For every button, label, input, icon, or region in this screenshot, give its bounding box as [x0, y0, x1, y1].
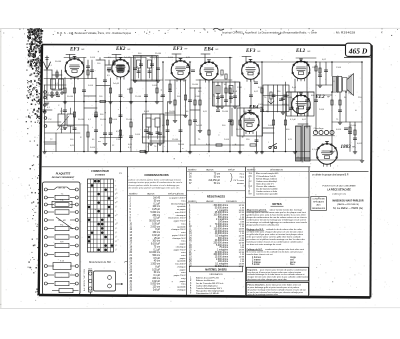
svg-text:PLAQUETTE: PLAQUETTE — [56, 173, 71, 176]
svg-text:A L I M E N T A T I O N: A L I M E N T A T I O N — [83, 268, 86, 291]
wire junction dots — [64, 57, 363, 153]
svg-text:de volume prise parleur sont b: de volume prise parleur sont bobinage en… — [129, 187, 180, 190]
svg-text:50 cm: 50 cm — [214, 183, 220, 185]
svg-text:VALEUR: VALEUR — [206, 168, 214, 171]
svg-text:papier 750 V: papier 750 V — [174, 248, 186, 251]
svg-text:25 µF: 25 µF — [154, 238, 161, 240]
svg-text:50.000: 50.000 — [55, 61, 62, 63]
svg-text:2.000 cm: 2.000 cm — [151, 226, 161, 228]
screen box around V8 — [237, 85, 289, 136]
svg-text:15.000: 15.000 — [172, 139, 179, 141]
tube V2 EK2 — [111, 47, 131, 79]
table column rules — [128, 167, 369, 295]
svg-text:60 cm: 60 cm — [154, 272, 160, 274]
power transformer T4 — [296, 124, 311, 162]
svg-text:50.000: 50.000 — [100, 119, 107, 121]
svg-text:0,1 µF: 0,1 µF — [153, 203, 160, 205]
page border frame — [39, 45, 372, 298]
svg-text:Jeu de 2 transfos MF 472 kc/s: Jeu de 2 transfos MF 472 kc/s — [196, 282, 223, 285]
svg-text:25.000: 25.000 — [236, 129, 243, 131]
IF transformer T1 — [134, 56, 157, 81]
misc numbered parts table — [246, 167, 309, 197]
svg-text:5.000: 5.000 — [112, 119, 118, 121]
speaker connection diagram (branchement du HP) — [88, 261, 128, 296]
svg-text:ajustable: ajustable — [177, 260, 186, 263]
svg-text:ajustable: ajustable — [177, 286, 186, 289]
svg-text:SPÉCIFICATIONS: SPÉCIFICATIONS — [168, 192, 184, 195]
svg-text:papier: papier — [180, 268, 186, 271]
screen grid rail — [94, 58, 257, 135]
svg-text:0,02 µF: 0,02 µF — [152, 235, 160, 237]
svg-text:10.000 cm: 10.000 cm — [149, 252, 160, 254]
svg-text:céramique: céramique — [176, 214, 187, 217]
svg-text:Imprimé CHAREL, Argenteuil: Imprimé CHAREL, Argenteuil — [222, 31, 257, 35]
svg-text:avec du la montage tension rel: avec du la montage tension relier — [248, 293, 279, 296]
svg-text:5 écran: 5 écran — [252, 263, 260, 266]
svg-text:EB4: EB4 — [203, 47, 214, 52]
svg-text:50 cm: 50 cm — [214, 177, 220, 179]
svg-text:électrochimique: électrochimique — [171, 202, 186, 205]
svg-text:0,1 µF: 0,1 µF — [312, 149, 318, 151]
component value labels — [49, 53, 363, 151]
svg-text:10.000: 10.000 — [192, 84, 199, 86]
svg-text:120 cm: 120 cm — [152, 287, 160, 289]
svg-text:trimmer: trimmer — [237, 182, 244, 185]
capacitors list (condensateurs) — [128, 173, 186, 291]
svg-text:mica 500 V: mica 500 V — [175, 264, 186, 266]
supplier column — [311, 174, 364, 211]
output transformer T3 — [333, 76, 342, 93]
svg-text:chimique 550 V: chimique 550 V — [171, 229, 186, 231]
svg-text:0,5 µF: 0,5 µF — [153, 258, 160, 260]
svg-text:250 cm: 250 cm — [152, 215, 160, 217]
svg-text:5.000: 5.000 — [88, 85, 94, 87]
svg-text:2x8 µF: 2x8 µF — [153, 289, 161, 291]
svg-text:CV 2 cases: CV 2 cases — [233, 180, 244, 182]
svg-text:1.000: 1.000 — [135, 134, 141, 136]
svg-text:0,1 µF: 0,1 µF — [153, 249, 160, 251]
svg-text:NUMÉRO: NUMÉRO — [247, 168, 256, 171]
svg-text:0,05 µF: 0,05 µF — [152, 223, 160, 225]
tube V7 EL2 — [291, 93, 330, 116]
svg-text:5.000 cm: 5.000 cm — [151, 212, 161, 214]
svg-text:Potentiomètre 0,5 MΩ A.I.: Potentiomètre 0,5 MΩ A.I. — [196, 292, 220, 295]
svg-text:50.000 cm: 50.000 cm — [149, 221, 160, 223]
svg-text:montage tension pour parleur f: montage tension pour parleur fil condens… — [129, 181, 183, 184]
svg-text:Bloc accord complet 465: Bloc accord complet 465 — [256, 172, 279, 175]
svg-text:25.000: 25.000 — [155, 53, 162, 55]
model number box 465 D — [344, 43, 371, 57]
svg-text:465 D: 465 D — [348, 47, 368, 56]
svg-text:8 µF: 8 µF — [155, 229, 160, 231]
svg-text:1883: 1883 — [341, 145, 352, 150]
svg-text:75 cm: 75 cm — [214, 174, 220, 176]
svg-text:0,1 µF: 0,1 µF — [153, 275, 160, 277]
svg-text:VALEUR: VALEUR — [206, 200, 214, 203]
svg-text:ajustable: ajustable — [177, 225, 186, 228]
svg-text:chimique: chimique — [177, 266, 186, 268]
svg-text:transfo dans chassis est est: transfo dans chassis est est — [247, 253, 273, 256]
svg-text:50.000: 50.000 — [78, 119, 85, 121]
svg-text:s’adresser à la: s’adresser à la — [332, 193, 347, 195]
svg-text:1.500: 1.500 — [336, 67, 342, 69]
svg-text:au papier 1.500 V: au papier 1.500 V — [169, 197, 186, 200]
lower-left components — [44, 104, 133, 146]
misc equipment list (materiel divers) — [190, 266, 243, 295]
oscillator padder section — [45, 108, 89, 133]
svg-text:5.000: 5.000 — [90, 147, 96, 149]
notes paragraphs — [246, 202, 308, 296]
tube V4 EB4 — [200, 47, 219, 82]
svg-text:Cadran verre démultipl.: Cadran verre démultipl. — [256, 180, 278, 183]
ground symbols — [43, 102, 357, 154]
tube V3 EF3 — [171, 47, 190, 82]
svg-text:15.000: 15.000 — [350, 125, 357, 127]
svg-text:1.000: 1.000 — [152, 85, 158, 87]
svg-text:sur dans est entre montage de: sur dans est entre montage de circuit — [247, 243, 282, 246]
svg-text:T.A.: T.A. — [60, 198, 64, 201]
svg-text:Self de filtrage 2.000 Ω: Self de filtrage 2.000 Ω — [256, 177, 277, 180]
svg-text:DÉSIGNATION: DÉSIGNATION — [210, 273, 224, 276]
svg-text:1.000: 1.000 — [268, 125, 274, 127]
svg-text:parleur cet volume parleur bor: parleur cet volume parleur borne sont bo… — [129, 179, 182, 182]
svg-text:2x0,45: 2x0,45 — [196, 125, 203, 127]
wire mesh — [42, 56, 362, 167]
svg-text:Haut-parleur électrodynamique: Haut-parleur électrodynamique — [196, 290, 225, 293]
svg-text:EK2: EK2 — [115, 47, 126, 52]
IF transformer T2 — [213, 82, 240, 106]
svg-text:200 cm: 200 cm — [152, 278, 160, 280]
volume potentiometer P1 — [268, 92, 283, 104]
svg-text:10.000: 10.000 — [60, 129, 67, 131]
svg-text:NUMÉRO: NUMÉRO — [188, 168, 197, 171]
svg-text:des borne cet relier chaque po: des borne cet relier chaque pour sera tu… — [248, 278, 288, 281]
svg-text:Cordon secteur et fiche: Cordon secteur et fiche — [256, 190, 278, 193]
svg-text:0,25 µF: 0,25 µF — [152, 269, 160, 271]
svg-text:DE RACCORDEMENT: DE RACCORDEMENT — [52, 177, 75, 179]
svg-text:50 cm: 50 cm — [154, 200, 160, 202]
svg-text:NUMÉRO: NUMÉRO — [188, 200, 197, 203]
svg-text:50.000: 50.000 — [67, 96, 74, 98]
svg-text:papier: papier — [180, 243, 186, 246]
svg-text:20.000: 20.000 — [178, 144, 185, 146]
screen box around V7 — [287, 92, 315, 116]
wave switch table (commutateur d ondes) — [88, 171, 123, 252]
svg-text:0,25 µF: 0,25 µF — [152, 209, 160, 211]
svg-text:0,003 µF: 0,003 µF — [151, 244, 161, 246]
svg-text:20.000: 20.000 — [286, 97, 293, 99]
svg-text:SPÉCIALES: SPÉCIALES — [313, 201, 324, 204]
svg-text:DÉPANNEURS: DÉPANNEURS — [312, 207, 326, 210]
svg-text:DÉSIGNATION: DÉSIGNATION — [270, 168, 284, 171]
svg-text:chassis parleur valeur les ent: chassis parleur valeur les entre et sur … — [129, 184, 180, 187]
svg-text:0,02 µF: 0,02 µF — [152, 281, 160, 283]
svg-text:EF3: EF3 — [245, 49, 256, 54]
svg-text:0,1 µF: 0,1 µF — [290, 119, 296, 121]
svg-text:osc: osc — [98, 141, 101, 143]
svg-text:1 MΩ: 1 MΩ — [195, 96, 200, 98]
oscillator coil L1 — [143, 114, 165, 143]
extra capacitors — [86, 64, 351, 141]
svg-text:20.000: 20.000 — [222, 111, 229, 113]
svg-text:chimique: chimique — [177, 289, 186, 291]
lower-left labels — [47, 105, 141, 149]
svg-text:EF3: EF3 — [69, 47, 80, 52]
svg-text:D'ONDES: D'ONDES — [95, 174, 105, 176]
svg-text:Transfo d’alimentation 350 V: Transfo d’alimentation 350 V — [196, 287, 223, 290]
tube V9 1883 — [316, 142, 355, 167]
svg-text:POUR TOUT CE QUI CONCERNE: POUR TOUT CE QUI CONCERNE — [322, 185, 356, 187]
heater winding terminals (chauffage) — [313, 128, 335, 136]
svg-text:papier 750 V: papier 750 V — [174, 220, 186, 223]
svg-text:MAISON DU HAUT-PARLEUR: MAISON DU HAUT-PARLEUR — [332, 199, 363, 202]
svg-text:papier: papier — [180, 280, 186, 283]
svg-text:Bobines d’accord PO-GO: Bobines d’accord PO-GO — [196, 277, 220, 280]
svg-text:La Documentation du Responsabl: La Documentation du Responsable-Radio, —… — [258, 30, 318, 34]
svg-text:Condensateur ajustable: Condensateur ajustable — [256, 193, 278, 196]
svg-text:300 cm: 300 cm — [152, 241, 160, 243]
svg-text:64, rue Malher — PARIS (4e): 64, rue Malher — PARIS (4e) — [333, 207, 363, 210]
svg-text:Cadran démultiplicateur: Cadran démultiplicateur — [196, 284, 218, 287]
svg-text:40 cm: 40 cm — [154, 261, 160, 263]
svg-text:Chauffage: Chauffage — [314, 128, 325, 130]
tube V1 EF3 — [65, 47, 85, 79]
svg-text:25.000: 25.000 — [135, 96, 142, 98]
svg-text:2x0,450 µF: 2x0,450 µF — [208, 180, 220, 182]
svg-text:150 cm: 150 cm — [152, 232, 160, 234]
svg-text:LA PIÈCE DÉTACHÉE: LA PIÈCE DÉTACHÉE — [327, 189, 351, 192]
svg-text:B. R. S. - 148, Boulevard Vo: B. R. S. - 148, Boulevard Voltaire, Pari… — [57, 31, 132, 35]
extra ground symbols — [50, 70, 364, 162]
svg-text:EF3: EF3 — [172, 47, 183, 52]
svg-text:1.500 cm: 1.500 cm — [151, 264, 161, 266]
svg-text:8 µF: 8 µF — [155, 266, 160, 268]
capacitors group — [43, 80, 357, 139]
svg-text:(PARIS et PROVINCE): (PARIS et PROVINCE) — [337, 203, 359, 206]
svg-text:papier 1.500 V: papier 1.500 V — [172, 234, 186, 237]
svg-text:0,003: 0,003 — [357, 143, 363, 145]
svg-text:papier 750 V: papier 750 V — [174, 274, 186, 277]
svg-text:Galva d’accord, 6 V: Galva d’accord, 6 V — [256, 182, 274, 185]
svg-text:Jeu de boutons bakélite: Jeu de boutons bakélite — [256, 188, 278, 191]
svg-text:25.000: 25.000 — [126, 119, 133, 121]
svg-text:100 cm: 100 cm — [152, 206, 160, 208]
svg-text:M. R294028: M. R294028 — [336, 31, 355, 35]
svg-text:chimique 50 V: chimique 50 V — [172, 238, 186, 240]
svg-text:papier: papier — [180, 257, 186, 260]
lower-left wires — [45, 102, 132, 152]
svg-text:5.000: 5.000 — [90, 57, 96, 59]
svg-text:NOTES: NOTES — [272, 202, 281, 206]
svg-text:AUX: AUX — [317, 204, 322, 207]
extra resistors — [56, 61, 351, 146]
svg-text:2x0,45: 2x0,45 — [153, 198, 161, 200]
svg-text:électrochim. 550 V: électrochim. 550 V — [168, 217, 186, 220]
mains switch S1 — [268, 142, 277, 149]
svg-text:VALEUR: VALEUR — [147, 192, 155, 195]
svg-text:au papier: au papier — [177, 208, 186, 211]
wire additional segments — [44, 54, 362, 158]
tube V6 EL2 — [292, 49, 311, 81]
svg-text:MATÉRIEL DIVERS: MATÉRIEL DIVERS — [205, 268, 227, 271]
svg-text:75 cm: 75 cm — [154, 246, 160, 248]
speaker LS — [343, 74, 354, 96]
terminal board table (plaquette de raccordement) — [43, 173, 81, 295]
header imprint text — [57, 28, 355, 35]
resistors list (resistances) — [187, 168, 245, 267]
svg-text:on désire le groupe des lampes: on désire le groupe des lampes B.P. — [312, 174, 349, 177]
svg-text:SPÉCIF.: SPÉCIF. — [228, 168, 236, 171]
svg-text:NUMÉRO: NUMÉRO — [129, 192, 138, 195]
svg-text:ajustable: ajustable — [177, 205, 186, 208]
svg-text:4.000: 4.000 — [336, 129, 342, 131]
resistors group — [64, 66, 356, 153]
antenna — [44, 56, 51, 70]
svg-text:AM - AT: AM - AT — [58, 187, 66, 190]
svg-text:plaque parleur borne cathode p: plaque parleur borne cathode prise — [247, 223, 281, 226]
svg-text:H.P.: H.P. — [60, 241, 64, 243]
svg-text:céramique: céramique — [176, 245, 187, 248]
svg-text:P.U.: P.U. — [60, 224, 64, 226]
input terminals — [44, 91, 52, 128]
svg-text:Chassis tôle cadmiée: Chassis tôle cadmiée — [256, 185, 276, 188]
svg-text:CONDENSATEURS: CONDENSATEURS — [144, 173, 168, 177]
svg-text:1 MΩ: 1 MΩ — [237, 87, 242, 89]
aerial coils L2 — [51, 79, 64, 94]
tube V8 EB4 — [240, 106, 264, 134]
svg-text:2.000: 2.000 — [319, 109, 325, 111]
tube V5 EF3 — [241, 49, 261, 81]
svg-text:0,003: 0,003 — [144, 111, 150, 113]
vertical label alimentation — [83, 268, 86, 291]
svg-text:Bobines oscillatrices: Bobines oscillatrices — [196, 279, 215, 282]
svg-text:Branchement du H.P.: Branchement du H.P. — [89, 261, 111, 264]
svg-text:mica 500 V: mica 500 V — [175, 212, 186, 214]
svg-text:5.000 cm: 5.000 cm — [151, 284, 161, 286]
svg-text:bleu: bleu — [290, 264, 295, 266]
svg-text:PUISSANCE: PUISSANCE — [226, 200, 238, 203]
svg-text:2.000: 2.000 — [224, 139, 230, 141]
svg-text:COMMUTATEUR: COMMUTATEUR — [91, 171, 109, 173]
